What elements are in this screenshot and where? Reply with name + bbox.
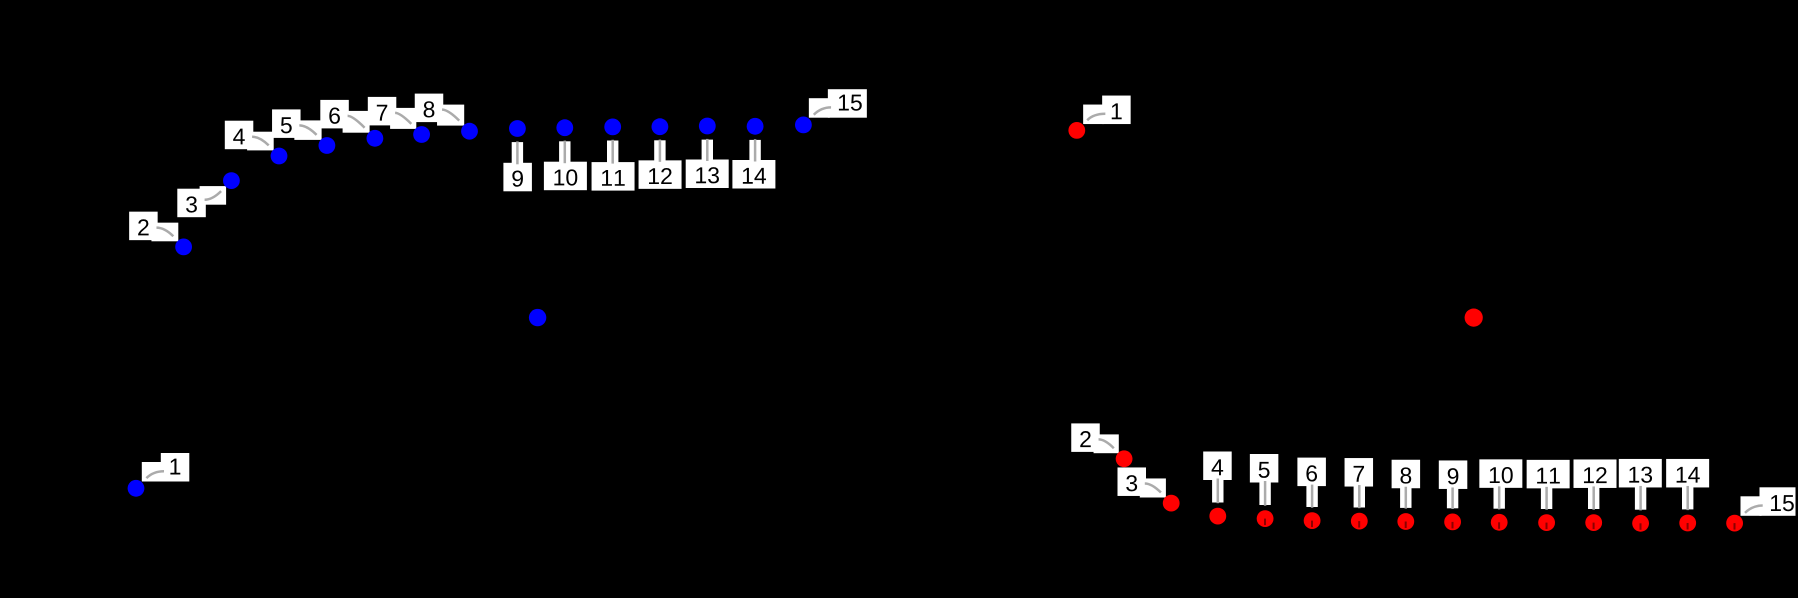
leader line blue point 2 (156, 228, 173, 237)
dark stem stub inside red point 5 (1264, 519, 1266, 526)
blue point 1 (128, 480, 145, 497)
red point 7 (1351, 513, 1368, 530)
label box red point 10 (1479, 459, 1522, 488)
leader underlay blue point 15 (809, 98, 830, 118)
leader line blue point 8 (442, 110, 459, 121)
label box red point 3 (1118, 467, 1147, 496)
label text "3" red point (1126, 475, 1137, 491)
label box red point 14 (1666, 459, 1709, 488)
blue point 3 (223, 172, 240, 189)
leader line blue point 13 (706, 139, 709, 161)
blue point 5 (319, 137, 336, 154)
blue point 6 (367, 130, 384, 147)
blue point 14 (747, 118, 764, 135)
dark stem stub inside red point 6 (1311, 521, 1313, 528)
red point 3 (1163, 495, 1180, 512)
dark stem stub inside red point 14 (1687, 523, 1689, 530)
label text "15" red point (1771, 495, 1781, 511)
label text "14" blue point (743, 168, 753, 184)
leader underlay red point 4 (1212, 478, 1223, 503)
label box red point 8 (1392, 460, 1421, 489)
label text "13" red point (1629, 467, 1639, 483)
label text "8" blue point (424, 101, 435, 117)
leader line red point 10 (1498, 486, 1501, 509)
red point 14 (1679, 515, 1696, 532)
label box blue point 13 (686, 160, 729, 189)
dark stem stub inside red point 12 (1593, 523, 1595, 530)
red point 5 (1257, 510, 1274, 527)
leader underlay blue point 14 (749, 140, 760, 162)
blue stray point (legend marker) (529, 309, 546, 326)
dark stem stub inside red point 7 (1358, 521, 1360, 528)
dark stem stub inside red point 8 (1405, 522, 1407, 529)
label box blue point 4 (225, 121, 254, 150)
red point 12 (1585, 514, 1602, 531)
leader line red point 13 (1639, 486, 1642, 510)
label box blue point 1 (161, 453, 190, 482)
leader underlay blue point 8 (437, 105, 464, 126)
label box red point 11 (1527, 460, 1570, 489)
leader underlay blue point 2 (151, 223, 178, 242)
red point 8 (1397, 513, 1414, 530)
label box red point 6 (1297, 458, 1326, 487)
label text "1" blue point (170, 459, 180, 475)
leader underlay blue point 7 (390, 108, 416, 129)
leader line red point 14 (1686, 486, 1689, 510)
leader line red point 1 (1087, 114, 1105, 120)
leader line blue point 12 (659, 140, 662, 162)
leader line red point 4 (1217, 479, 1220, 504)
leader underlay red point 12 (1588, 486, 1599, 509)
dark stem stub inside red point 9 (1452, 522, 1454, 529)
label box blue point 5 (272, 109, 301, 137)
blue point 9 (509, 120, 526, 137)
blue point 15 (795, 117, 812, 134)
leader line blue point 5 (299, 125, 316, 134)
leader underlay red point 6 (1306, 484, 1317, 507)
label box blue point 6 (320, 100, 349, 128)
label text "14" red point (1677, 467, 1687, 483)
label text "11" red point (1537, 468, 1547, 484)
label text "2" red point (1080, 431, 1090, 447)
label box red point 9 (1439, 460, 1468, 489)
label box red point 13 (1619, 459, 1662, 488)
red point 1 (1068, 122, 1085, 139)
label box red point 2 (1071, 423, 1100, 452)
red point 2 (1116, 450, 1133, 467)
label text "7" red point (1354, 466, 1364, 482)
label text "1" red point (1112, 103, 1122, 119)
leader line blue point 3 (205, 191, 222, 200)
leader underlay red point 9 (1447, 487, 1458, 508)
label text "11" blue point (602, 170, 612, 186)
red point 10 (1491, 514, 1508, 531)
leader line blue point 1 (146, 471, 164, 478)
leader underlay red point 15 (1741, 496, 1762, 516)
label text "6" red point (1306, 465, 1317, 481)
leader underlay blue point 6 (343, 111, 370, 133)
label text "13" blue point (696, 167, 706, 183)
label box blue point 11 (592, 162, 635, 191)
label box blue point 12 (639, 160, 682, 189)
leader underlay blue point 5 (294, 120, 321, 139)
label box red point 12 (1574, 459, 1617, 488)
label box blue point 14 (732, 160, 775, 189)
leader line blue point 10 (564, 141, 567, 164)
red point 9 (1444, 514, 1461, 531)
dark stem stub inside red point 10 (1498, 522, 1500, 529)
label box blue point 7 (368, 97, 397, 126)
leader line red point 11 (1545, 487, 1548, 510)
leader underlay red point 13 (1635, 485, 1646, 509)
label box blue point 3 (177, 189, 206, 218)
leader underlay red point 11 (1541, 486, 1552, 509)
leader underlay red point 1 (1083, 105, 1104, 125)
label text "5" red point (1259, 462, 1270, 478)
leader line blue point 7 (395, 113, 411, 124)
leader line red point 9 (1451, 487, 1454, 509)
label box red point 15 (1760, 487, 1796, 516)
leader line red point 7 (1358, 485, 1361, 508)
label text "10" blue point (554, 170, 564, 186)
blue point 11 (604, 119, 621, 136)
leader underlay red point 8 (1400, 486, 1411, 508)
blue point 7 (413, 126, 430, 143)
blue point 8 (461, 123, 478, 140)
leader underlay blue point 11 (607, 141, 618, 165)
leader line blue point 11 (611, 140, 614, 164)
label text "10" red point (1490, 467, 1500, 483)
label text "3" blue point (186, 196, 197, 212)
leader underlay blue point 13 (702, 140, 713, 162)
red point 15 (1726, 515, 1743, 532)
leader underlay blue point 10 (559, 141, 570, 163)
label text "12" red point (1584, 467, 1594, 483)
label box blue point 15 (828, 89, 867, 118)
leader line red point 12 (1592, 486, 1595, 509)
leader line red point 3 (1145, 483, 1161, 492)
leader line red point 5 (1264, 481, 1267, 506)
label text "12" blue point (649, 168, 659, 184)
label box blue point 9 (503, 163, 532, 192)
leader underlay blue point 12 (654, 140, 665, 162)
label text "4" blue point (233, 129, 245, 145)
label text "15" blue point (839, 95, 849, 111)
label box red point 7 (1345, 458, 1374, 487)
blue point 2 (175, 239, 192, 256)
label text "4" red point (1212, 459, 1224, 475)
leader underlay red point 14 (1682, 485, 1693, 509)
leader line blue point 15 (814, 107, 831, 114)
leader underlay blue point 3 (200, 186, 227, 205)
leader underlay red point 2 (1094, 434, 1119, 453)
label text "9" blue point (512, 170, 523, 186)
leader underlay blue point 9 (512, 142, 523, 165)
label text "5" blue point (281, 117, 292, 133)
label box blue point 8 (415, 94, 444, 123)
leader underlay red point 10 (1494, 486, 1505, 509)
red point 4 (1209, 508, 1226, 525)
label text "2" blue point (138, 219, 148, 235)
dark stem stub inside red point 13 (1640, 523, 1642, 530)
red point 11 (1538, 514, 1555, 531)
blue point 10 (556, 119, 573, 136)
leader line red point 15 (1745, 506, 1763, 513)
leader underlay red point 5 (1259, 481, 1270, 506)
label box blue point 2 (129, 212, 158, 241)
leader underlay red point 7 (1354, 485, 1365, 508)
red point 6 (1304, 512, 1321, 529)
red point 13 (1632, 515, 1649, 532)
label box red point 4 (1203, 452, 1232, 481)
leader line red point 2 (1099, 439, 1114, 448)
blue point 12 (652, 118, 669, 135)
blue point 4 (271, 148, 288, 165)
blue point 13 (699, 118, 716, 135)
dark stem stub inside red point 15 (1734, 523, 1736, 530)
red stray point (legend marker) (1465, 309, 1483, 327)
leader underlay blue point 4 (247, 132, 274, 151)
label text "6" blue point (329, 108, 340, 124)
label text "9" red point (1448, 468, 1459, 484)
leader line blue point 9 (516, 141, 519, 164)
label box red point 1 (1102, 96, 1131, 125)
label box red point 5 (1250, 454, 1279, 483)
dark stem stub inside red point 11 (1546, 523, 1548, 530)
leader underlay blue point 1 (142, 462, 163, 482)
leader line blue point 6 (348, 116, 365, 128)
label box blue point 10 (544, 162, 587, 191)
leader line red point 6 (1311, 485, 1314, 508)
leader line blue point 14 (754, 139, 757, 161)
label text "8" red point (1400, 467, 1411, 483)
leader underlay red point 3 (1140, 478, 1166, 497)
leader line red point 8 (1405, 487, 1408, 509)
leader line blue point 4 (252, 137, 269, 146)
label text "7" blue point (377, 105, 387, 121)
